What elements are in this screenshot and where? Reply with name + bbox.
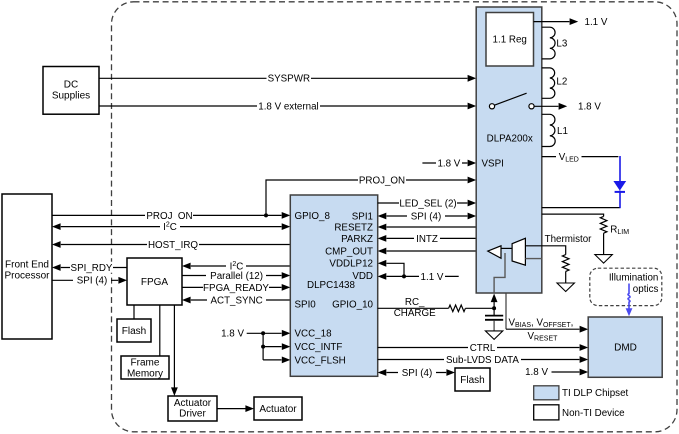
svg-text:ACT_SYNC: ACT_SYNC [210, 295, 262, 306]
inductor L2 [542, 68, 568, 98]
wire SPI (4) DLPC-DLPA [378, 210, 477, 222]
svg-text:CMP_OUT: CMP_OUT [325, 246, 373, 257]
wire RESETZ [378, 224, 477, 231]
FPGA box [127, 258, 182, 305]
wire CTRL [378, 342, 589, 354]
illumination light path (blue) [626, 284, 633, 317]
DLPA200x PMIC [476, 7, 542, 293]
internal wire (gray) [494, 253, 505, 292]
svg-text:SPI (4): SPI (4) [77, 276, 108, 287]
regulator 1.1 Reg [486, 13, 534, 67]
svg-text:1.8 V: 1.8 V [525, 367, 548, 378]
svg-text:1.1 V: 1.1 V [585, 17, 608, 28]
capacitor RC [485, 308, 503, 330]
Actuator box [254, 397, 302, 420]
node VLED [542, 151, 619, 164]
svg-text:Illumination: Illumination [609, 273, 659, 284]
svg-text:Supplies: Supplies [52, 91, 90, 102]
svg-text:I2C: I2C [163, 222, 177, 234]
Front End Processor box [2, 194, 52, 339]
ground (RC cap) [485, 331, 502, 340]
inductor L1 [542, 114, 568, 146]
DMD [588, 317, 662, 377]
wire PROJ_ON (FEP to DLPC GPIO_8) [52, 210, 290, 222]
svg-text:Thermistor: Thermistor [545, 234, 593, 245]
switch 1.8 V [489, 93, 601, 113]
resistor RLIM [542, 214, 629, 254]
svg-text:VCC_INTF: VCC_INTF [295, 342, 343, 353]
wire INTZ [378, 233, 477, 245]
Flash box (FPGA) [117, 319, 151, 342]
svg-text:VSPI: VSPI [482, 158, 504, 169]
svg-text:VCC_18: VCC_18 [295, 329, 333, 340]
svg-text:1.8 V: 1.8 V [437, 158, 460, 169]
svg-text:1.8 V external: 1.8 V external [258, 101, 318, 112]
svg-text:1.1 V: 1.1 V [421, 272, 444, 283]
svg-text:Driver: Driver [179, 409, 206, 420]
DC Supplies box [43, 67, 99, 115]
svg-text:GPIO_10: GPIO_10 [332, 299, 373, 310]
svg-text:VDD: VDD [352, 271, 373, 282]
svg-text:HOST_IRQ: HOST_IRQ [148, 240, 198, 251]
svg-text:CTRL: CTRL [470, 343, 496, 354]
svg-text:Actuator: Actuator [259, 404, 297, 415]
wire 1.8 V to VCC pins [221, 329, 290, 364]
svg-text:SPI0: SPI0 [295, 299, 317, 310]
svg-text:FPGA: FPGA [141, 277, 169, 288]
illumination optics [590, 268, 662, 305]
svg-text:GPIO_8: GPIO_8 [295, 211, 331, 222]
DLPC1438 controller [290, 195, 377, 376]
svg-text:Parallel (12): Parallel (12) [210, 271, 263, 282]
internal wire dac out (gray) [525, 258, 541, 260]
svg-text:L1: L1 [557, 126, 568, 137]
wire SYSPWR [99, 73, 476, 85]
legend TI DLP Chipset [534, 386, 629, 400]
svg-text:CHARGE: CHARGE [394, 308, 436, 319]
svg-text:Processor: Processor [4, 271, 50, 282]
svg-text:1.8 V: 1.8 V [578, 102, 601, 113]
svg-text:Flash: Flash [460, 375, 484, 386]
svg-text:INTZ: INTZ [416, 234, 438, 245]
svg-text:SPI1: SPI1 [352, 211, 373, 222]
wire FPGA to Frame Memory [159, 305, 161, 356]
svg-text:SPI_RDY: SPI_RDY [71, 263, 113, 274]
inductor L3 [542, 27, 568, 59]
wire LED_SEL (2) [378, 197, 477, 209]
svg-text:Memory: Memory [127, 368, 163, 379]
svg-text:SPI (4): SPI (4) [411, 211, 442, 222]
svg-text:SPI (4): SPI (4) [402, 368, 433, 379]
svg-text:DLPA200x: DLPA200x [487, 133, 533, 144]
svg-text:Sub-LVDS DATA: Sub-LVDS DATA [446, 355, 519, 366]
svg-text:Flash: Flash [122, 326, 146, 337]
dac buffer (DLPA internal) [512, 238, 525, 265]
wire HOST_IRQ [52, 239, 290, 251]
svg-text:VCC_FLSH: VCC_FLSH [295, 355, 346, 366]
svg-text:Frame: Frame [131, 358, 160, 369]
Actuator Driver box [168, 396, 217, 421]
svg-text:1.1 Reg: 1.1 Reg [493, 35, 527, 46]
svg-text:1.8 V: 1.8 V [221, 329, 244, 340]
svg-text:Actuator: Actuator [174, 398, 212, 409]
svg-text:DLPC1438: DLPC1438 [307, 280, 355, 291]
svg-text:L3: L3 [556, 38, 567, 49]
Flash box (DLPC) [455, 368, 490, 391]
legend Non-TI Device [534, 405, 625, 420]
ground (thermistor) [557, 283, 574, 292]
wire CMP_OUT [378, 248, 488, 255]
svg-text:TI DLP Chipset: TI DLP Chipset [562, 388, 629, 399]
svg-text:PROJ_ON: PROJ_ON [359, 175, 405, 186]
wire SPI (4) FEP to FPGA [52, 275, 127, 287]
wire Sub-LVDS DATA [378, 354, 589, 366]
comparator (DLPA internal) [488, 246, 501, 258]
svg-text:optics: optics [633, 284, 659, 295]
thermistor net [525, 233, 592, 283]
wire 1.8 V to VSPI [422, 157, 476, 169]
wire FPGA to Flash [133, 305, 135, 319]
svg-text:LED_SEL (2): LED_SEL (2) [399, 198, 456, 209]
wire diode return [542, 207, 620, 209]
ground (RLIM) [595, 255, 612, 264]
diode LED (blue) [613, 156, 626, 208]
wire 1.1 V output [534, 17, 608, 28]
svg-text:FPGA_READY: FPGA_READY [203, 283, 269, 294]
svg-text:VDDLP12: VDDLP12 [329, 259, 373, 270]
junction PROJ_ON [264, 213, 268, 217]
wire 1.8 V external [99, 100, 476, 112]
svg-text:PARKZ: PARKZ [341, 234, 373, 245]
wire RC_CHARGE [378, 294, 498, 320]
wire VDD 1.1 V [378, 271, 459, 283]
wire comparator to dac [501, 247, 512, 249]
wire PROJ_ON (to DLPA) [266, 174, 476, 215]
svg-text:L2: L2 [556, 76, 567, 87]
svg-text:DMD: DMD [614, 343, 637, 354]
resistor RC [449, 305, 466, 312]
wire Actuator Driver to Actuator [217, 405, 254, 412]
wire FPGA to Actuator Driver [171, 305, 178, 396]
wire I2C (FEP-DLPC) [52, 220, 290, 234]
wire VBIAS VOFFSET VRESET to DMD [506, 293, 588, 342]
svg-text:Non-TI Device: Non-TI Device [562, 408, 625, 419]
wire ACT_SYNC [182, 294, 290, 306]
wire SPI_RDY [52, 262, 127, 274]
wire I2C (FPGA-DLPC) [182, 259, 290, 273]
svg-text:SYSPWR: SYSPWR [268, 74, 310, 85]
Frame Memory box [121, 356, 169, 379]
wire VDDLP12 [378, 260, 404, 277]
wire FPGA_READY [182, 282, 290, 294]
wire 1.8 V to DMD [525, 367, 588, 378]
wire SPI (4) DLPC-Flash [378, 367, 455, 379]
svg-text:RESETZ: RESETZ [334, 223, 373, 234]
svg-text:Front End: Front End [5, 259, 49, 270]
svg-text:RC_: RC_ [405, 297, 425, 308]
svg-text:DC: DC [64, 80, 78, 91]
wire Parallel (12) [182, 270, 290, 282]
